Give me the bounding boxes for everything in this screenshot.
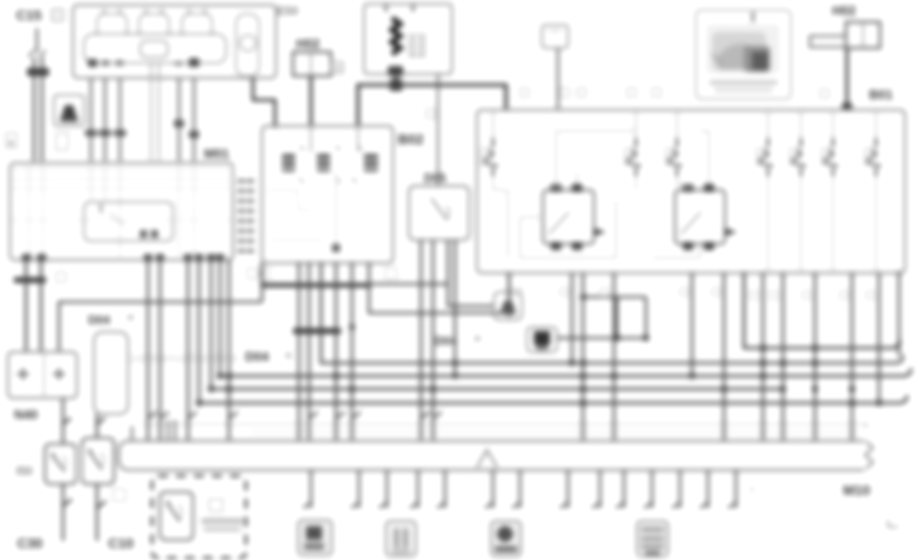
wire corner rise — [262, 284, 448, 302]
D02 caption lines — [201, 518, 243, 524]
relay K1 in B01 — [543, 190, 594, 244]
E50 bottom pin 1 — [88, 59, 97, 67]
relay I30 box top-center — [364, 4, 452, 74]
SECTION: top-center — [262, 4, 661, 263]
wire E50 pin3 to M01 — [119, 78, 121, 161]
B01 internal routing light wires — [493, 131, 876, 272]
fuse relay box B01 — [477, 110, 905, 273]
D02 inner switch — [160, 492, 193, 540]
svg-text:N40: N40 — [14, 407, 38, 422]
long wire h376 — [220, 368, 911, 376]
svg-text:carmanualsonline: carmanualsonline — [128, 350, 239, 365]
svg-text:D04: D04 — [245, 349, 270, 364]
fuse bump 3 in E50 — [182, 14, 212, 36]
B02 internal light wires — [335, 172, 337, 250]
ground bus bar M10 — [119, 441, 874, 470]
E50 side slot — [236, 14, 259, 76]
wire h317 B02 to B01 — [369, 262, 509, 313]
bottom icon connector 4 — [637, 521, 668, 556]
pin label near wire — [820, 89, 829, 98]
dashed option box D02 — [152, 476, 246, 558]
wire E50 pin4 to M01 — [178, 78, 180, 161]
pin labels above B01 — [520, 88, 529, 97]
switch box I50b — [82, 438, 114, 484]
buzzer icon mid — [494, 292, 522, 320]
svg-text:H02: H02 — [832, 3, 856, 18]
wire M01 pin b down — [40, 259, 43, 352]
bar peak symbol — [477, 450, 497, 467]
switch D05 box — [409, 186, 469, 240]
wire C15 pair left — [33, 57, 36, 161]
connector C15 pin box — [52, 9, 63, 21]
fuse F6 — [825, 138, 838, 176]
M01 inner module — [84, 202, 173, 241]
bar end break notch — [864, 438, 878, 473]
right edge hooks — [892, 340, 900, 348]
M01 ghost lines — [12, 169, 235, 171]
pin label near b — [56, 272, 66, 282]
wire E50 window pins — [150, 63, 152, 161]
fuse F7 — [868, 138, 881, 176]
fuse F5 — [793, 138, 806, 176]
long wire h403 — [199, 395, 907, 403]
svg-text:M01: M01 — [204, 146, 229, 161]
bottom icon connector 3 — [491, 521, 521, 556]
svg-text:x: x — [864, 420, 869, 430]
junction dots — [196, 335, 882, 406]
wire E50 pin5 to M01 — [193, 78, 195, 161]
D05 switch symbol — [431, 198, 447, 220]
svg-text:E50: E50 — [277, 4, 299, 18]
small box H10 top right of B02 — [542, 25, 568, 48]
wire E50 pin1 to M01 — [90, 78, 92, 161]
inset caption lines — [709, 80, 778, 85]
fuse bump 1 in E50 — [97, 14, 127, 36]
relay K2 in B01 — [675, 190, 725, 244]
svg-text:M10: M10 — [843, 482, 870, 498]
light wire h424 — [143, 423, 868, 425]
svg-text:C10: C10 — [108, 535, 134, 551]
svg-text:x: x — [750, 484, 755, 494]
wire I50a to C30 — [62, 484, 65, 541]
wire C15 pair right — [41, 57, 44, 161]
SECTION: top-left — [6, 4, 299, 261]
fuse bump 2 in E50 — [139, 14, 169, 36]
inset illustration frame — [696, 10, 791, 99]
N40 terminal 1 — [17, 368, 29, 380]
D02 pin label — [209, 499, 223, 511]
E50 bottom pin 5 — [189, 58, 199, 67]
relay coil symbol — [392, 18, 400, 54]
svg-text:C30: C30 — [17, 535, 43, 551]
wire duct to I50b — [96, 414, 99, 438]
connector ticks on a b — [14, 277, 36, 283]
thick bus wire E50 to B01 — [358, 85, 506, 127]
junction on bus — [390, 79, 402, 91]
B02 pin stack 1 — [282, 154, 295, 159]
body computer M01 — [10, 163, 233, 260]
connector tick C15 — [28, 50, 34, 57]
fuse pin labels — [481, 148, 871, 165]
svg-text:B02: B02 — [398, 131, 424, 147]
fuse F3 — [669, 138, 682, 176]
inset tick — [752, 12, 754, 22]
H02 right handle bar — [810, 36, 846, 47]
B02 pin ticks above — [300, 146, 362, 150]
N40 terminal 2 — [53, 368, 65, 380]
fuse F1 — [485, 138, 498, 176]
M01 inner tick — [100, 204, 102, 213]
junction dots pin4 pin5 — [174, 120, 184, 127]
B02 pin stack 2 — [317, 154, 330, 159]
E50 bottom pin 4 — [175, 61, 182, 66]
wire M01 pin a down — [25, 259, 28, 352]
tick N40 down — [63, 418, 71, 424]
wire comp2 loop — [583, 296, 646, 299]
connector H02 right body — [846, 22, 880, 48]
wire I50b down — [96, 484, 99, 541]
svg-text:C15: C15 — [16, 7, 42, 23]
svg-text:D05: D05 — [424, 171, 446, 185]
B02 pin ticks below — [299, 178, 357, 183]
dark component mid — [527, 327, 557, 352]
long wire h389 — [211, 388, 783, 391]
wire H02 right to B01 — [845, 48, 848, 110]
relay pin label 30 — [388, 66, 403, 76]
B01 bottom drop wires — [508, 273, 511, 317]
M01 bottom wires — [147, 259, 150, 441]
B02 bottom wires — [298, 262, 301, 441]
pin comb M01 to B02 — [238, 181, 254, 251]
E50 inner body — [84, 34, 226, 63]
junction bar on C15 wires — [27, 68, 49, 76]
fuse feed stubs — [493, 112, 876, 138]
bottom icon connector 1 — [298, 520, 332, 555]
relay N40 box — [8, 352, 77, 398]
SECTION: middle wiring — [8, 240, 911, 527]
bar stubs — [167, 420, 169, 441]
shade between boxes — [76, 448, 82, 480]
connector H02 left body — [293, 52, 331, 76]
fuse F4 — [760, 138, 773, 176]
wire relay to D05 — [437, 74, 439, 186]
pin label right of I50b — [113, 489, 126, 501]
B02 pin stack 3 — [364, 154, 378, 159]
wire relay to bus — [395, 74, 398, 86]
dashboard B02 box — [262, 126, 393, 263]
relay top ticks — [385, 4, 387, 12]
H02 left tab — [331, 62, 343, 73]
M01 inner pins — [140, 230, 147, 238]
E50 bottom pin 2 — [102, 60, 109, 66]
svg-text:D04: D04 — [88, 313, 110, 327]
inset illustration blobs — [706, 24, 780, 74]
wire comp2 right — [557, 297, 646, 338]
E50 bottom pin 3 — [116, 60, 123, 66]
wire E50 pin2 to M01 — [104, 78, 106, 161]
junction at B01 top — [842, 103, 852, 111]
pin label square left — [6, 133, 17, 148]
horn component box — [54, 95, 84, 126]
pin labels below B01 — [514, 288, 874, 299]
switch box I50a — [45, 444, 76, 484]
fuse F2 — [628, 138, 641, 176]
horn symbol — [61, 105, 77, 118]
fuse box E50 — [73, 5, 276, 78]
svg-text:I50: I50 — [16, 464, 33, 478]
SECTION: bottom — [16, 438, 878, 558]
bottom icon connector 2 — [386, 521, 416, 556]
E50 side circle — [240, 35, 256, 51]
SECTION: top-right — [477, 3, 905, 273]
relay contact grid — [409, 34, 425, 57]
hanging ground wires — [311, 470, 736, 508]
svg-text:B01: B01 — [869, 87, 893, 102]
wire H02 left to B02 — [309, 76, 312, 127]
D05 bottom wires — [420, 240, 423, 441]
B01 fuses — [485, 138, 881, 176]
pin label square mid — [56, 133, 68, 150]
E50 inner window — [140, 41, 168, 57]
connector ticks row on wires — [85, 130, 97, 136]
wire H10 to B01 — [557, 48, 559, 110]
connector ticks mid verticals — [148, 412, 238, 418]
svg-text:H02: H02 — [296, 36, 320, 51]
wire E50 right elbow to B02 — [253, 78, 275, 128]
wire h348 right — [744, 272, 899, 348]
wire end ticks — [303, 503, 736, 508]
wire N40 down — [62, 398, 65, 444]
wire corner to N40 — [59, 302, 262, 352]
duct D04 outline — [94, 332, 128, 414]
wire C15 stub — [36, 28, 38, 53]
